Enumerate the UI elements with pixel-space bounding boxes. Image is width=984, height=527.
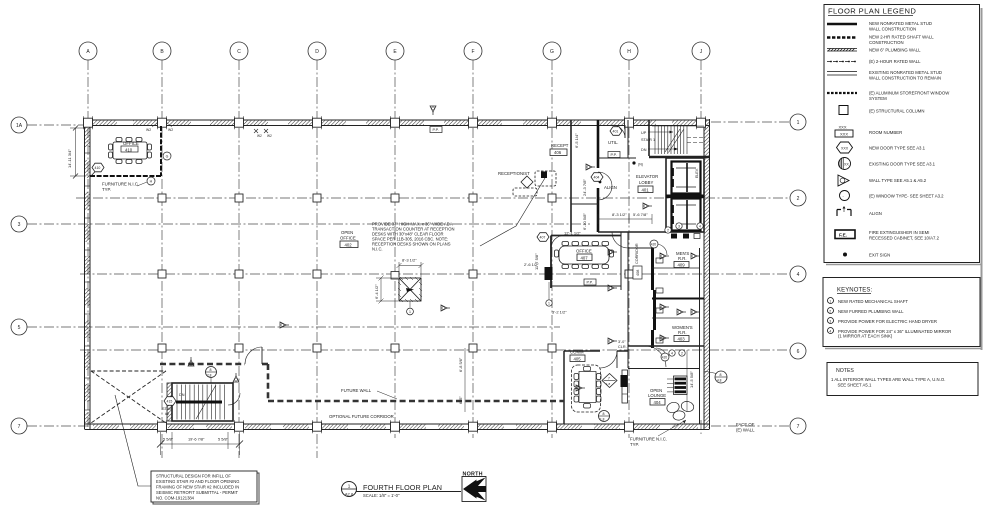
svg-text:14'-11 3/4": 14'-11 3/4" — [67, 149, 72, 168]
svg-text:1.8: 1.8 — [606, 382, 611, 386]
columns bottom wall — [158, 420, 167, 433]
svg-text:ALIGN: ALIGN — [604, 185, 617, 190]
keynote 2 — [828, 308, 834, 314]
svg-text:RECESSED CABINET, SEE 10/A7.2: RECESSED CABINET, SEE 10/A7.2 — [869, 236, 940, 241]
svg-text:W2: W2 — [146, 128, 151, 132]
svg-text:7: 7 — [608, 377, 610, 381]
columns row 2 — [158, 194, 166, 202]
svg-text:24'-3 7/8": 24'-3 7/8" — [582, 179, 587, 196]
svg-text:410: 410 — [125, 147, 133, 152]
grid row 3 — [27, 223, 590, 225]
receptionist desks dashed — [513, 171, 556, 196]
ANNOT — [67, 106, 755, 504]
bubble 2 — [790, 190, 806, 206]
svg-text:OPEN: OPEN — [341, 230, 353, 235]
svg-text:6'-8 5/8": 6'-8 5/8" — [458, 357, 463, 372]
elevator car 2 — [671, 199, 701, 231]
svg-text:3'-0": 3'-0" — [618, 340, 626, 344]
detail circle 8 — [599, 411, 610, 422]
diamond exit symbol — [602, 374, 617, 388]
svg-text:NEW 6" PLUMBING WALL: NEW 6" PLUMBING WALL — [869, 48, 921, 53]
window flags C-D — [254, 129, 268, 133]
office 407 walls — [551, 235, 621, 237]
util room wall — [598, 157, 636, 159]
bubble 5 — [11, 319, 27, 335]
grid row 7 right — [711, 425, 790, 427]
svg-text:4: 4 — [829, 330, 831, 334]
detail circle stair2 — [206, 367, 217, 378]
grid column C — [238, 60, 240, 458]
grid row 6 — [80, 349, 790, 351]
urinals / sinks on wall 232 — [671, 234, 677, 239]
legend align — [837, 206, 851, 216]
LEGEND — [823, 5, 982, 396]
svg-text:5: 5 — [18, 325, 21, 331]
svg-text:OFFICE: OFFICE — [340, 236, 356, 241]
stair 2 door — [228, 393, 240, 405]
bubble H — [620, 42, 638, 60]
svg-text:4: 4 — [671, 352, 673, 356]
svg-text:3'-2 1/2": 3'-2 1/2" — [552, 310, 567, 315]
svg-text:SYSTEM: SYSTEM — [869, 96, 887, 101]
bubble 7R — [790, 418, 806, 434]
stair 2 treads — [177, 385, 224, 420]
svg-text:6'-10 5/8": 6'-10 5/8" — [582, 213, 587, 230]
svg-text:19'-6 7/8": 19'-6 7/8" — [188, 437, 205, 442]
svg-text:STAIR: STAIR — [162, 407, 173, 411]
restroom plumbing wall (dark) — [651, 248, 654, 290]
shaft E4 dims — [376, 262, 424, 308]
legend fire extinguisher — [835, 230, 855, 239]
svg-text:OPTIONAL FUTURE CORRIDOR: OPTIONAL FUTURE CORRIDOR — [329, 414, 394, 419]
svg-text:FACE OF: FACE OF — [736, 422, 755, 427]
svg-text:WALL CONSTRUCTION: WALL CONSTRUCTION — [869, 27, 916, 32]
keynote 4 — [828, 328, 834, 334]
svg-text:12'-1 1/2": 12'-1 1/2" — [564, 231, 581, 236]
svg-text:3: 3 — [678, 225, 680, 229]
svg-text:408: 408 — [636, 270, 640, 276]
bubble 1 — [790, 114, 806, 130]
svg-text:ALIGN: ALIGN — [869, 211, 882, 216]
svg-text:WALL CONSTRUCTION TO REMAIN: WALL CONSTRUCTION TO REMAIN — [869, 76, 941, 81]
svg-text:G: G — [166, 155, 169, 159]
svg-text:(E) ALUMINUM STOREFRONT WINDOW: (E) ALUMINUM STOREFRONT WINDOW — [869, 91, 950, 96]
grid column B — [161, 60, 163, 458]
wall flags scattered — [586, 164, 595, 170]
svg-text:5'-6 7/8": 5'-6 7/8" — [633, 212, 648, 217]
svg-text:ROOM NUMBER: ROOM NUMBER — [869, 130, 902, 135]
bubble D — [308, 42, 326, 60]
svg-text:6: 6 — [797, 349, 800, 355]
legend new door — [837, 142, 853, 153]
svg-text:8'-3 1/2": 8'-3 1/2" — [402, 258, 417, 263]
bubble J — [692, 42, 710, 60]
columns on top wall — [84, 116, 93, 129]
WALLS — [84, 116, 710, 433]
exit dot lobby — [632, 161, 635, 164]
keynotes box — [823, 278, 980, 347]
legend new nonrated wall — [827, 23, 857, 26]
FE box util — [608, 152, 620, 158]
shaft hatch ticks — [398, 277, 422, 302]
rr bottom wall — [628, 345, 704, 347]
office 410 table — [109, 138, 152, 164]
svg-text:14'-5 5/8": 14'-5 5/8" — [689, 371, 694, 388]
PP box office — [584, 279, 596, 285]
svg-text:W2: W2 — [257, 134, 262, 138]
svg-text:3: 3 — [829, 320, 831, 324]
grid column H — [628, 60, 630, 438]
structural note box — [115, 395, 259, 504]
svg-text:NEW DOOR TYPE SEE A3.1: NEW DOOR TYPE SEE A3.1 — [869, 146, 926, 151]
svg-text:TYP.: TYP. — [630, 442, 639, 447]
CORE — [90, 120, 710, 424]
grid row 2 — [76, 197, 790, 199]
bubble 7L — [11, 418, 27, 434]
svg-text:N.I.C.: N.I.C. — [372, 247, 383, 252]
comm room walls — [564, 350, 600, 352]
svg-text:FLOOR PLAN LEGEND: FLOOR PLAN LEGEND — [828, 7, 916, 16]
svg-text:1.8: 1.8 — [600, 418, 605, 422]
svg-text:OFFICE: OFFICE — [123, 141, 139, 146]
bubble 3 — [11, 216, 27, 232]
drawing title bubble — [342, 482, 357, 497]
mens rr partitions — [652, 267, 700, 269]
svg-text:XXX: XXX — [841, 146, 849, 150]
svg-text:FURNITURE N.I.C.: FURNITURE N.I.C. — [102, 182, 139, 187]
grid row 4 — [80, 273, 790, 275]
svg-text:XX: XX — [844, 162, 849, 166]
legend existing wall — [827, 71, 857, 73]
toilets — [656, 258, 663, 263]
door hexagon 404 — [591, 173, 603, 182]
reception leader — [480, 178, 545, 246]
reception wall G — [570, 120, 572, 232]
columns row 4 — [158, 270, 166, 278]
svg-text:FIRE EXTINGUISHER IN SEMI: FIRE EXTINGUISHER IN SEMI — [869, 230, 929, 235]
svg-text:2: 2 — [797, 196, 800, 202]
keynote circles lounge — [669, 350, 675, 356]
svg-text:OFFICE: OFFICE — [576, 249, 592, 254]
TITLE — [342, 472, 487, 502]
office 410 door leaf — [91, 164, 102, 176]
grid row 1 — [711, 121, 790, 123]
svg-text:404: 404 — [654, 400, 662, 405]
comm cabinets — [622, 370, 628, 403]
svg-text:420: 420 — [662, 356, 668, 360]
door hexagon 410 — [92, 163, 104, 172]
columns row 6 — [158, 344, 166, 352]
grid row 1A — [27, 124, 88, 126]
ADA note — [372, 222, 454, 252]
svg-text:RECEPTIONIST: RECEPTIONIST — [498, 171, 530, 176]
legend shaft wall — [827, 36, 857, 39]
svg-text:COMM: COMM — [570, 350, 584, 355]
svg-text:NEW RATED MECHANICAL SHAFT: NEW RATED MECHANICAL SHAFT — [838, 299, 908, 304]
stair 1 treads — [652, 126, 704, 154]
svg-text:TYP.: TYP. — [102, 187, 111, 192]
svg-text:1: 1 — [797, 120, 800, 126]
svg-text:P.P.: P.P. — [587, 281, 593, 285]
grid column F — [472, 60, 474, 438]
sheet edge shadow — [981, 8, 983, 350]
office 407 door arc — [551, 235, 564, 248]
svg-text:402: 402 — [345, 242, 353, 247]
infill X brace — [91, 371, 166, 423]
recept south wall — [571, 203, 598, 205]
bubble C — [230, 42, 248, 60]
grid column D — [316, 60, 318, 458]
svg-text:P.P.: P.P. — [433, 128, 439, 132]
bubble F — [464, 42, 482, 60]
svg-text:STAIR 1: STAIR 1 — [641, 138, 655, 142]
svg-text:1: 1 — [548, 302, 550, 306]
svg-text:NEW NONRATED METAL STUD: NEW NONRATED METAL STUD — [869, 21, 932, 26]
shaft detail at E4 — [391, 272, 421, 302]
svg-text:FRAMING OF NEW STAIR #2 INCLUD: FRAMING OF NEW STAIR #2 INCLUDED IN — [156, 485, 239, 490]
svg-text:EXIT SIGN: EXIT SIGN — [869, 253, 890, 258]
legend storefront — [827, 92, 857, 94]
legend existing door — [839, 158, 851, 170]
svg-text:CORRIDOR: CORRIDOR — [635, 243, 639, 264]
lobby south wall — [598, 231, 666, 233]
svg-text:ELEV.: ELEV. — [695, 168, 699, 178]
elevator shaft walls — [666, 158, 704, 232]
office 407 table — [555, 242, 614, 269]
bubble B — [153, 42, 171, 60]
svg-text:C: C — [237, 49, 241, 55]
svg-text:407: 407 — [540, 236, 546, 240]
notes box — [827, 363, 978, 396]
svg-text:8: 8 — [210, 368, 212, 372]
svg-text:2: 2 — [667, 229, 669, 233]
grid row 5 — [27, 326, 560, 328]
svg-text:2: 2 — [829, 310, 831, 314]
svg-text:415: 415 — [167, 400, 173, 404]
bottom exterior wall — [85, 424, 710, 430]
svg-text:WALL TYPE SEE A5.1 & A5.2: WALL TYPE SEE A5.1 & A5.2 — [869, 178, 927, 183]
stair2 right dims vertical — [464, 348, 466, 412]
svg-text:LOBBY: LOBBY — [639, 180, 653, 185]
svg-text:LOUNGE: LOUNGE — [648, 393, 666, 398]
svg-text:FURNITURE N.I.C.: FURNITURE N.I.C. — [630, 437, 667, 442]
svg-text:CONSTRUCTION: CONSTRUCTION — [869, 40, 904, 45]
svg-text:P.P.: P.P. — [611, 153, 617, 157]
util door arc — [612, 125, 625, 138]
svg-text:401: 401 — [613, 130, 619, 134]
future wall dashed — [160, 364, 564, 401]
legend 2hr rated wall — [827, 61, 857, 63]
bubble G — [543, 42, 561, 60]
svg-text:W2: W2 — [267, 134, 272, 138]
svg-text:6'-5": 6'-5" — [458, 396, 463, 404]
office 410 walls (heavy dashed) — [90, 126, 161, 176]
bubble 4 — [790, 266, 806, 282]
legend exit sign — [843, 253, 847, 257]
svg-text:2.8: 2.8 — [207, 374, 212, 378]
tag circle G — [163, 152, 171, 160]
svg-text:FOURTH FLOOR PLAN: FOURTH FLOOR PLAN — [363, 483, 442, 492]
svg-text:1: 1 — [829, 300, 831, 304]
right exterior wall — [704, 119, 710, 429]
grid row 7 left — [27, 425, 88, 427]
svg-text:4: 4 — [797, 272, 800, 278]
svg-text:(E) WALL: (E) WALL — [736, 428, 755, 433]
bubble 6 — [790, 343, 806, 359]
svg-text:RECEPTION DESKS SHOWN ON PLANS: RECEPTION DESKS SHOWN ON PLANS — [372, 242, 451, 247]
svg-text:1A: 1A — [16, 123, 23, 129]
svg-text:NEW FURRED PLUMBING WALL: NEW FURRED PLUMBING WALL — [838, 309, 904, 314]
svg-text:EXISTING STAIR #2 AND FLOOR OP: EXISTING STAIR #2 AND FLOOR OPENING — [156, 479, 239, 484]
svg-text:XXX: XXX — [840, 132, 848, 137]
svg-text:(E) WINDOW TYPE- SEE SHEET A3.: (E) WINDOW TYPE- SEE SHEET A3.2 — [869, 194, 944, 199]
bubble 1A — [11, 117, 27, 133]
keynote 1 at shaft G4 — [546, 300, 552, 306]
detail circle right — [715, 371, 727, 383]
svg-text:H: H — [627, 49, 631, 55]
svg-text:5 5/8": 5 5/8" — [218, 437, 229, 442]
PP box on top wall — [430, 127, 442, 133]
svg-text:UTIL.: UTIL. — [608, 140, 619, 145]
left exterior wall — [85, 121, 91, 429]
svg-text:EXISTING DOOR TYPE SEE A3.1: EXISTING DOOR TYPE SEE A3.1 — [869, 162, 936, 167]
lounge table dashed — [572, 365, 601, 412]
svg-text:1 ALL INTERIOR WALL TYPES AR: 1 ALL INTERIOR WALL TYPES ARE WALL TYPE … — [831, 377, 945, 382]
legend structural column — [839, 106, 848, 115]
hexagon 407 — [537, 233, 549, 242]
svg-text:NO. COM-19121384: NO. COM-19121384 — [156, 496, 195, 501]
legend window type — [840, 191, 850, 201]
svg-text:403: 403 — [678, 336, 686, 341]
svg-text:8'-3 1/2": 8'-3 1/2" — [612, 212, 627, 217]
lounge chairs — [665, 401, 680, 415]
dim 14-11 vertical — [67, 126, 84, 179]
tag circle H — [147, 177, 155, 185]
corridor door arc — [612, 232, 628, 248]
rr east wall — [699, 248, 701, 424]
svg-text:EXISTING NONRATED METAL STUD: EXISTING NONRATED METAL STUD — [869, 70, 942, 75]
svg-text:SEE SHEET A5.1: SEE SHEET A5.1 — [838, 383, 872, 388]
restroom north wall — [628, 247, 652, 249]
svg-text:410: 410 — [95, 166, 101, 170]
stair 1 enclosure — [648, 120, 650, 156]
svg-text:6'-4 1/2": 6'-4 1/2" — [374, 284, 379, 299]
svg-text:6'-5 1/4": 6'-5 1/4" — [574, 133, 579, 148]
svg-text:XXX: XXX — [839, 125, 847, 130]
svg-text:4.8: 4.8 — [717, 379, 722, 383]
svg-text:420: 420 — [651, 243, 657, 247]
svg-text:7: 7 — [797, 424, 800, 430]
rr door arcs — [656, 244, 667, 255]
svg-text:401: 401 — [642, 187, 650, 192]
svg-text:R.R.: R.R. — [678, 256, 687, 261]
svg-text:ELEVATOR: ELEVATOR — [636, 174, 658, 179]
bubble E — [386, 42, 404, 60]
svg-text:UP: UP — [641, 131, 647, 135]
svg-text:(1 MIRROR AT EACH SINK): (1 MIRROR AT EACH SINK) — [838, 334, 893, 339]
elevator car 1 — [671, 162, 701, 194]
svg-text:A2.8: A2.8 — [345, 492, 354, 497]
svg-text:3: 3 — [18, 222, 21, 228]
stair 2 enclosure — [172, 383, 233, 421]
svg-text:F: F — [471, 49, 474, 55]
svg-text:SEISMIC RETROFIT SUBMITTAL - P: SEISMIC RETROFIT SUBMITTAL - PERMIT — [156, 490, 239, 495]
svg-text:(N): (N) — [638, 163, 643, 167]
svg-text:409: 409 — [678, 262, 686, 267]
svg-text:FUTURE WALL: FUTURE WALL — [341, 388, 372, 393]
svg-text:STRUCTURAL DESIGN FOR INFILL O: STRUCTURAL DESIGN FOR INFILL OF — [156, 474, 231, 479]
top exterior wall — [88, 120, 710, 126]
legend box — [824, 5, 980, 263]
svg-text:405: 405 — [574, 356, 582, 361]
lounge kitchenette — [675, 378, 687, 394]
svg-text:4: 4 — [699, 225, 701, 229]
comm door arc — [600, 351, 617, 368]
north arrow — [462, 472, 486, 502]
keynote 1 — [828, 298, 834, 304]
svg-text:PROVIDE POWER FOR ELECTRIC HAN: PROVIDE POWER FOR ELECTRIC HAND DRYER — [838, 319, 937, 324]
room label office 410 — [121, 146, 138, 152]
lobby door arcs — [598, 172, 612, 186]
svg-text:RECEPT: RECEPT — [551, 143, 569, 148]
legend plumbing wall — [827, 49, 857, 52]
mech shaft at G4 (solid) — [545, 267, 553, 280]
svg-text:2: 2 — [681, 352, 683, 356]
stair 2 center rail — [176, 401, 222, 404]
svg-text:CLR.: CLR. — [618, 345, 627, 349]
svg-text:1: 1 — [348, 484, 351, 489]
svg-text:404: 404 — [594, 176, 600, 180]
grid column G — [551, 60, 553, 438]
svg-text:W2: W2 — [168, 128, 173, 132]
svg-text:8: 8 — [603, 412, 605, 416]
legend wall type — [838, 175, 849, 186]
svg-text:DN: DN — [179, 393, 185, 397]
keynote circles rr — [665, 227, 671, 233]
future door arc — [245, 347, 262, 364]
svg-text:7: 7 — [18, 424, 21, 430]
svg-text:F.E.: F.E. — [839, 233, 847, 238]
svg-text:406: 406 — [554, 150, 562, 155]
svg-text:(E) STRUCTURAL COLUMN: (E) STRUCTURAL COLUMN — [869, 109, 924, 114]
svg-text:NOTES: NOTES — [836, 368, 854, 374]
door circles 420 — [650, 240, 658, 248]
svg-text:SCALE: 1/8" = 1'-0": SCALE: 1/8" = 1'-0" — [363, 493, 400, 498]
grid column E — [394, 60, 396, 438]
plumbing wall (dark) — [597, 120, 600, 168]
bubble A — [79, 42, 97, 60]
svg-text:NEW 2-HR RATED SHAFT WALL: NEW 2-HR RATED SHAFT WALL — [869, 35, 934, 40]
svg-text:8: 8 — [720, 373, 722, 377]
svg-text:G: G — [550, 49, 554, 55]
svg-text:2'-6 1/2": 2'-6 1/2" — [524, 262, 539, 267]
grid column A — [87, 60, 89, 430]
svg-text:1: 1 — [409, 310, 411, 314]
svg-text:#2: #2 — [165, 412, 169, 416]
svg-text:R.R.: R.R. — [678, 330, 687, 335]
corridor 408 west wall — [627, 232, 629, 368]
keynote 3 — [828, 318, 834, 324]
svg-text:(E) 2-HOUR RATED WALL: (E) 2-HOUR RATED WALL — [869, 59, 921, 64]
svg-text:KEYNOTES:: KEYNOTES: — [837, 288, 872, 294]
svg-text:D: D — [315, 49, 319, 55]
svg-text:407: 407 — [581, 255, 589, 260]
grid column J — [700, 60, 702, 121]
svg-text:DN: DN — [641, 148, 647, 152]
